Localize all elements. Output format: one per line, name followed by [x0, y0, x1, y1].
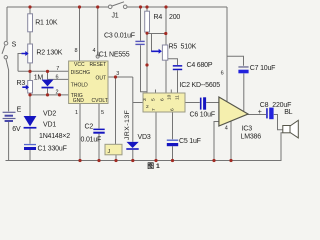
svg-text:+: +: [258, 109, 262, 116]
svg-text:GND: GND: [73, 98, 85, 104]
svg-text:220uF: 220uF: [272, 102, 291, 109]
svg-text:RESET: RESET: [90, 62, 107, 68]
svg-text:R3: R3: [17, 80, 26, 87]
svg-text:C4 680P: C4 680P: [187, 62, 213, 69]
svg-text:C1 330uF: C1 330uF: [38, 146, 67, 153]
svg-text:1N4148×2: 1N4148×2: [39, 133, 70, 140]
svg-text:图 1: 图 1: [147, 161, 160, 170]
svg-text:200: 200: [169, 14, 180, 21]
svg-text:JRX-13F: JRX-13F: [124, 110, 131, 140]
svg-text:11: 11: [175, 95, 181, 100]
svg-text:IC2 KD--5605: IC2 KD--5605: [180, 82, 221, 89]
svg-text:R1 10K: R1 10K: [35, 20, 58, 27]
svg-text:2: 2: [56, 90, 59, 96]
svg-text:J1: J1: [112, 13, 119, 20]
svg-text:R4: R4: [154, 14, 163, 21]
svg-text:THOLD: THOLD: [71, 82, 88, 88]
svg-text:IC3: IC3: [242, 126, 253, 133]
svg-text:2: 2: [146, 104, 149, 110]
svg-text:7: 7: [151, 108, 157, 111]
svg-text:3: 3: [142, 98, 148, 101]
svg-text:5: 5: [101, 110, 104, 116]
svg-text:6: 6: [221, 71, 224, 77]
svg-text:VD1: VD1: [43, 122, 56, 129]
svg-text:R5 510K: R5 510K: [169, 44, 197, 51]
svg-text:5: 5: [151, 98, 157, 101]
svg-text:C2: C2: [85, 124, 94, 131]
svg-text:6: 6: [170, 108, 176, 111]
svg-text:VD3: VD3: [138, 134, 151, 141]
svg-text:7: 7: [56, 66, 59, 72]
svg-text:VCC: VCC: [74, 62, 85, 68]
svg-text:J: J: [108, 149, 111, 155]
svg-text:CVOLT: CVOLT: [92, 98, 108, 104]
svg-text:4: 4: [93, 48, 96, 54]
svg-text:E: E: [17, 107, 22, 114]
svg-text:1M: 1M: [34, 75, 44, 82]
svg-text:IC1 NE555: IC1 NE555: [97, 52, 130, 59]
svg-text:6: 6: [56, 75, 59, 81]
svg-text:VD2: VD2: [43, 111, 56, 118]
svg-text:C7 10uF: C7 10uF: [250, 65, 275, 72]
svg-text:S: S: [12, 42, 17, 49]
svg-text:DISCHG: DISCHG: [71, 70, 91, 76]
svg-text:C5 1uF: C5 1uF: [179, 138, 201, 145]
svg-text:R2 130K: R2 130K: [36, 50, 62, 57]
svg-text:OUT: OUT: [96, 76, 107, 82]
svg-text:C8: C8: [260, 102, 269, 109]
svg-text:C6 10uF: C6 10uF: [190, 112, 215, 119]
svg-text:BL: BL: [284, 109, 292, 116]
svg-text:8: 8: [75, 48, 78, 54]
svg-text:3: 3: [116, 71, 119, 77]
svg-text:6: 6: [160, 98, 166, 101]
svg-text:1: 1: [75, 110, 78, 116]
svg-text:C3 0.01uF: C3 0.01uF: [104, 33, 135, 40]
svg-text:0.01uF: 0.01uF: [81, 137, 102, 144]
svg-text:4: 4: [225, 126, 228, 132]
svg-text:10: 10: [167, 94, 173, 100]
svg-text:LM386: LM386: [241, 134, 262, 141]
svg-text:6V: 6V: [12, 126, 21, 133]
